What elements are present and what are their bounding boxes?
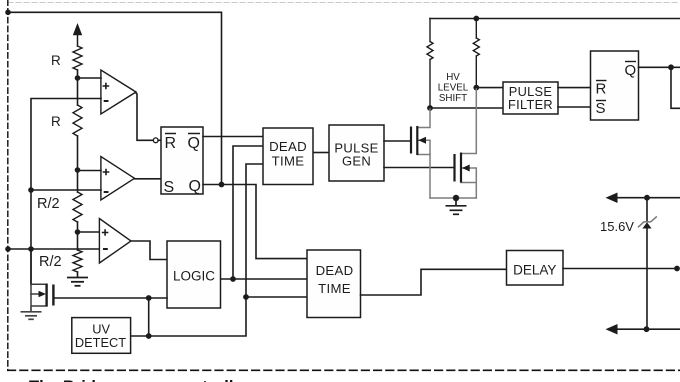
ground divider xyxy=(67,278,88,286)
latch U4 RS flip-flop xyxy=(161,127,203,196)
label HV LEVEL SHIFT xyxy=(438,72,469,104)
node CT pin dot xyxy=(5,246,11,252)
wire VCC top rail left xyxy=(8,12,222,184)
latch U5 RS flip-flop (high side) xyxy=(591,51,639,120)
current source arrow up xyxy=(77,34,79,46)
comparator U1 xyxy=(101,70,136,114)
wire DELAY output to pin xyxy=(563,268,677,270)
node Rls1 bottom junction xyxy=(427,105,433,111)
block UV DETECT xyxy=(72,318,131,354)
svg-text:R: R xyxy=(165,135,177,152)
wire latch Qbar to DEAD TIME xyxy=(203,136,263,138)
wire DEAD TIME to PULSE GEN xyxy=(313,152,329,154)
node zener top junction xyxy=(644,195,650,201)
node CT junction U3 xyxy=(28,246,34,252)
wire to comparator U2 + input xyxy=(78,170,102,172)
wire CT pin to comparator U3 - input xyxy=(8,248,99,250)
wire PULSE FILTER to latch2 R input xyxy=(558,87,591,89)
wire latch2 Q output xyxy=(639,66,680,68)
svg-text:LOGIC: LOGIC xyxy=(173,269,215,284)
wire CT vertical bus xyxy=(31,99,101,285)
wire to PULSE FILTER upper input xyxy=(476,87,503,89)
resistor R/2 (first) xyxy=(73,192,82,222)
svg-text:GEN: GEN xyxy=(342,154,371,169)
wire PULSE FILTER to latch2 S input xyxy=(558,106,591,108)
svg-text:R: R xyxy=(596,81,607,98)
wire LO pin with arrow xyxy=(616,328,680,330)
svg-text:R/2: R/2 xyxy=(37,196,60,212)
wire to ground of divider xyxy=(77,272,79,277)
node CT junction U2 xyxy=(28,187,34,193)
wire to comparator U1 + input xyxy=(78,77,102,79)
node Q rail junction xyxy=(219,182,225,188)
wire divider node 1 xyxy=(77,70,79,105)
svg-text:DETECT: DETECT xyxy=(75,335,126,350)
resistor Rls2 (HV) xyxy=(473,19,479,88)
transistor Q1 level shift FET xyxy=(417,109,430,198)
wire HV top rail right xyxy=(430,18,680,20)
svg-text:Q: Q xyxy=(188,135,200,152)
wire UV junction vertical xyxy=(148,298,150,336)
block PULSE FILTER xyxy=(503,82,558,114)
ground HV rail xyxy=(446,198,467,214)
caption The Bridge power controller xyxy=(29,378,249,382)
wire latch Q output xyxy=(203,185,307,259)
svg-text:TIME: TIME xyxy=(272,154,305,169)
resistor R/2 (second) xyxy=(73,250,82,272)
transistor Q2 level shift FET xyxy=(430,89,476,198)
block LOGIC xyxy=(167,241,221,308)
node Rls2 bottom junction xyxy=(473,85,479,91)
svg-text:R: R xyxy=(51,114,61,129)
node divider1 dot xyxy=(75,75,81,81)
wire latch2 output feedback down xyxy=(671,67,680,108)
svg-text:S: S xyxy=(596,100,606,117)
wire divider node 2 xyxy=(77,136,79,192)
svg-text:R: R xyxy=(51,53,61,68)
svg-text:SHIFT: SHIFT xyxy=(439,93,467,104)
node UV output junction xyxy=(146,333,152,339)
IC boundary dashed border bottom xyxy=(8,369,680,371)
svg-text:Q: Q xyxy=(189,178,201,195)
comparator U3 xyxy=(99,219,131,264)
block PULSE GEN xyxy=(329,125,384,181)
wire Q3 gate to LOGIC xyxy=(53,297,167,299)
wire feedback to DEAD TIME input 2 xyxy=(233,146,263,279)
node LO junction xyxy=(644,326,650,332)
wire zener vertical xyxy=(646,198,648,330)
node HV ground junction xyxy=(453,195,459,201)
zener diode D1 15.6V xyxy=(642,222,651,228)
svg-text:DELAY: DELAY xyxy=(513,263,556,278)
wire divider node 3 xyxy=(77,222,79,250)
wire PULSE GEN to Q2 gate xyxy=(384,167,454,169)
resistor R (second) xyxy=(73,105,82,136)
svg-text:DEAD: DEAD xyxy=(316,263,354,278)
wire comparator U1 output to latch R input xyxy=(136,93,154,141)
node gate-UV junction xyxy=(146,295,152,301)
svg-text:HV: HV xyxy=(446,72,460,83)
resistor Rls1 (HV) xyxy=(427,19,433,109)
wire comparator U2 output to latch S input xyxy=(135,178,162,180)
wire to PULSE FILTER lower input xyxy=(430,107,503,109)
IC boundary dashed border left xyxy=(7,0,9,370)
svg-text:S: S xyxy=(164,179,175,196)
inverting bubble at latch R input xyxy=(153,138,158,143)
wire to comparator U2 - input xyxy=(31,189,101,191)
svg-text:15.6V: 15.6V xyxy=(600,219,634,234)
wire HV source rail xyxy=(430,197,476,199)
node rail-resistor junction xyxy=(473,16,479,22)
wire VB pin with arrow xyxy=(616,197,680,199)
IC boundary dashed border top xyxy=(8,2,680,4)
wire to comparator U3 + input xyxy=(78,231,100,233)
svg-text:Q: Q xyxy=(625,62,637,79)
wire DEAD TIME 2 to DELAY xyxy=(361,269,507,295)
svg-text:TIME: TIME xyxy=(318,281,351,296)
node UV bus junction xyxy=(243,294,249,300)
node pin dot VCC xyxy=(5,10,11,16)
svg-text:R/2: R/2 xyxy=(39,254,62,270)
ground sense FET xyxy=(21,306,42,319)
block DEAD TIME 2 xyxy=(307,250,361,318)
node DELAY output pin dot xyxy=(674,266,680,272)
block DELAY xyxy=(507,251,564,286)
node divider2 dot xyxy=(75,167,81,173)
wire PULSE GEN to Q1 gate xyxy=(384,140,410,142)
node latch2 output junction xyxy=(668,64,674,70)
comparator U2 xyxy=(101,157,135,201)
svg-text:LEVEL: LEVEL xyxy=(438,83,469,94)
block DEAD TIME 1 xyxy=(263,128,313,185)
wire LOGIC output to DEAD TIME 2 xyxy=(221,278,308,280)
svg-text:FILTER: FILTER xyxy=(508,97,553,112)
wire bubble to latch xyxy=(158,139,161,141)
transistor Q3 sense FET xyxy=(31,249,47,306)
wire UV bus to DEAD TIME input 3 xyxy=(131,164,263,336)
resistor R (top) xyxy=(73,46,82,70)
wire UV bus to DEAD TIME 2 xyxy=(246,296,307,298)
svg-text:DEAD: DEAD xyxy=(269,139,307,154)
node divider3 dot xyxy=(75,229,81,235)
wire comparator U3 output to LOGIC xyxy=(131,241,167,260)
node LOGIC output junction xyxy=(230,276,236,282)
